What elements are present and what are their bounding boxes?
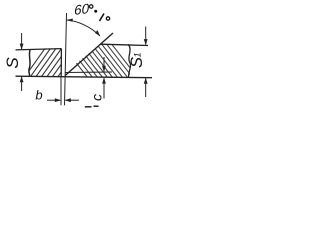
label tolerance digit 1 (100, 14, 105, 22)
dimension S line top (21, 33, 23, 49)
angle arc (60 deg annotation) (66, 20, 99, 36)
plate 2 break line (right wavy edge) (128, 44, 130, 77)
plate 1 hatching (left plate, / direction) (24, 47, 79, 78)
plate 1 top edge + S extension line (16, 49, 62, 50)
svg-text:1: 1 (133, 52, 144, 57)
angle arc arrow right (toward bevel face) (95, 30, 101, 36)
dimension b line right (66, 99, 80, 101)
plate 2 top edge + S1 extension line (100, 44, 148, 45)
plate 1 break line (left wavy edge) (29, 49, 30, 76)
dimension S1 arrow bottom (144, 78, 148, 84)
bottom edge of both plates + extension lines (16, 76, 153, 78)
svg-text:b: b (35, 88, 42, 103)
svg-text:S: S (128, 57, 146, 68)
dimension c line top (103, 57, 105, 71)
plate 1 right edge (60, 49, 62, 77)
dimension b arrow left (55, 98, 61, 102)
vertical reference line through root vertex (angle leg + b extension) (65, 13, 67, 105)
angle arc arrow left (at vertical leg) (66, 19, 73, 22)
dimension c arrow top (102, 66, 106, 72)
dimension S1 line bottom (145, 79, 147, 98)
svg-text:60: 60 (74, 1, 89, 18)
label plus-minus dot (94, 10, 97, 13)
svg-text:c: c (89, 94, 105, 101)
svg-text:S: S (3, 57, 22, 69)
dimension b line left (47, 99, 60, 101)
label degree sign after 1 (106, 17, 109, 20)
dimension c arrow bottom (102, 77, 106, 83)
dimension S arrow top (20, 44, 24, 50)
dimension S1 line top (145, 27, 147, 45)
dimension c line bottom (103, 78, 105, 98)
label degree sign after 60 (89, 5, 93, 9)
dimension b arrow right (65, 98, 71, 102)
stray caption dashes bottom (85, 106, 92, 108)
plate 2 hatching (right plate, \ direction) (60, 42, 138, 78)
plate 2 bevel face (beveled edge) (65, 33, 113, 76)
dimension S line bottom (21, 77, 23, 91)
dimension b extension line (from plate 1 right edge) (60, 78, 62, 106)
dimension S1 arrow top (144, 39, 148, 45)
dimension S arrow bottom (20, 76, 24, 82)
plate 2 root face top line (extension line for c) (65, 71, 112, 74)
